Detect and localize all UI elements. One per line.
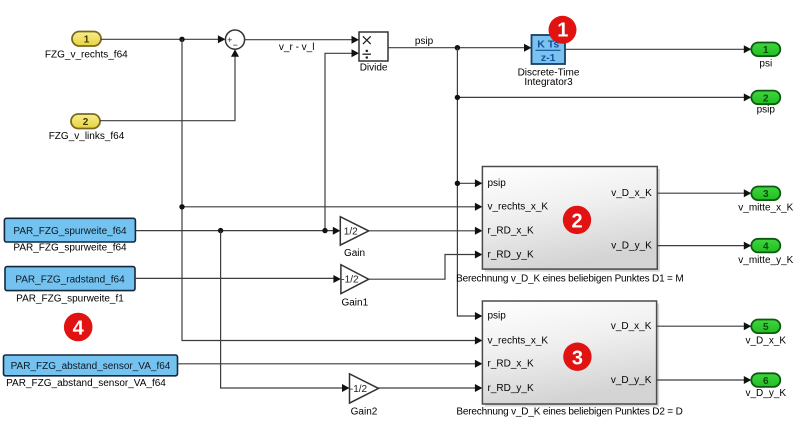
wire spurweite branch down to gain2: [221, 231, 350, 392]
svg-text:Gain: Gain: [344, 248, 365, 259]
svg-text:PAR_FZG_abstand_sensor_VA_f64: PAR_FZG_abstand_sensor_VA_f64: [11, 361, 171, 372]
wire inport2 to sum: [100, 49, 239, 120]
parameter block PAR_FZG_abstand_sensor_VA_f64: [4, 355, 178, 376]
svg-text:1: 1: [84, 35, 90, 46]
junction psip to subsystem1: [455, 181, 460, 186]
svg-text:3: 3: [572, 347, 583, 369]
junction divide output branch: [455, 45, 460, 50]
svg-text:4: 4: [763, 242, 769, 253]
svg-text:v_mitte_y_K: v_mitte_y_K: [738, 255, 793, 266]
wire subsystem1 v_D_y_K to outport4: [657, 242, 751, 250]
wire inport1 to sum: [101, 35, 225, 43]
outport 5: [751, 320, 780, 334]
subsystem 1 Berechnung D1 = M: [482, 167, 660, 272]
svg-text:v_rechts_x_K: v_rechts_x_K: [488, 335, 549, 346]
svg-text:psip: psip: [488, 311, 507, 322]
svg-text:Gain1: Gain1: [341, 297, 368, 308]
wire gain to subsystem1 r_RD_x_K: [369, 227, 483, 235]
svg-text:PAR_FZG_abstand_sensor_VA_f64: PAR_FZG_abstand_sensor_VA_f64: [6, 378, 166, 389]
wire spurweite branch up to divide divisor: [325, 49, 359, 230]
svg-text:1/2: 1/2: [344, 226, 358, 237]
wire radstand to gain1: [135, 275, 341, 283]
svg-text:v_mitte_x_K: v_mitte_x_K: [738, 202, 793, 213]
red marker 2: [563, 206, 591, 234]
svg-text:PAR_FZG_radstand_f64: PAR_FZG_radstand_f64: [15, 274, 125, 285]
svg-text:-1/2: -1/2: [341, 275, 359, 286]
wire v_rechts to subsystem1: [182, 203, 482, 211]
svg-text:3: 3: [763, 189, 769, 200]
gain block Gain: [340, 217, 368, 245]
svg-text:2: 2: [83, 117, 89, 128]
svg-text:v_D_y_K: v_D_y_K: [746, 388, 787, 399]
svg-text:psip: psip: [488, 178, 507, 189]
svg-text:v_D_x_K: v_D_x_K: [611, 321, 652, 332]
arrow v_rechts into subsystem2: [475, 337, 483, 345]
svg-text:-1/2: -1/2: [350, 384, 368, 395]
red marker 1: [549, 16, 577, 44]
inport 2 FZG_v_links_f64: [71, 114, 100, 129]
wire gain1 to subsystem1 r_RD_y_K: [369, 251, 483, 280]
wire subsystem2 v_D_y_K to outport6: [657, 376, 752, 384]
red marker 4: [64, 313, 93, 342]
wire sum to divide: [245, 36, 359, 44]
svg-text:K Ts: K Ts: [537, 38, 559, 50]
svg-text:r_RD_x_K: r_RD_x_K: [488, 226, 534, 237]
sum block: [225, 30, 244, 50]
wire gain2 to subsystem2 r_RD_y_K: [379, 384, 483, 392]
svg-text:v_r - v_l: v_r - v_l: [279, 42, 315, 53]
wire divide output to integrator: [388, 44, 532, 52]
outport 6: [751, 373, 780, 387]
svg-text:+: +: [227, 35, 232, 45]
svg-text:6: 6: [763, 376, 769, 387]
red marker 3: [563, 343, 591, 371]
svg-text:v_D_y_K: v_D_y_K: [611, 241, 652, 252]
outport 4: [751, 239, 780, 253]
svg-text:v_D_x_K: v_D_x_K: [611, 188, 652, 199]
gain block Gain2: [350, 374, 379, 403]
svg-text:Divide: Divide: [360, 63, 388, 74]
inport 1 FZG_v_rechts_f64: [72, 32, 101, 47]
svg-text:Berechnung v_D_K eines beliebi: Berechnung v_D_K eines beliebigen Punkte…: [456, 274, 683, 285]
svg-text:2: 2: [763, 93, 769, 104]
junction psip line: [455, 95, 460, 100]
svg-text:v_D_x_K: v_D_x_K: [746, 336, 787, 347]
outport 3: [751, 187, 780, 201]
svg-text:4: 4: [73, 318, 85, 340]
wire psip to outport2: [457, 93, 751, 101]
svg-text:Integrator3: Integrator3: [524, 77, 573, 88]
svg-text:−: −: [233, 40, 238, 50]
svg-text:FZG_v_rechts_f64: FZG_v_rechts_f64: [45, 50, 128, 61]
svg-text:v_D_y_K: v_D_y_K: [611, 375, 652, 386]
svg-text:psip: psip: [757, 105, 776, 116]
svg-text:Berechnung v_D_K eines beliebi: Berechnung v_D_K eines beliebigen Punkte…: [456, 407, 682, 418]
wire subsystem1 v_D_x_K to outport3: [657, 189, 751, 197]
junction v_rechts to subsystem1: [179, 204, 184, 209]
svg-text:PAR_FZG_spurweite_f64: PAR_FZG_spurweite_f64: [13, 242, 127, 253]
wire psip vertical distribution: [457, 48, 475, 316]
divide block Divide: [359, 32, 388, 61]
outport 2: [751, 91, 780, 105]
wire integrator to outport psi: [565, 45, 751, 53]
arrow psip into subsystem2: [475, 312, 483, 320]
svg-text:psi: psi: [759, 59, 772, 70]
outport 1: [751, 43, 780, 57]
integrator expression K Ts / z-1: [536, 38, 561, 63]
gain block Gain1: [341, 265, 369, 294]
svg-text:PAR_FZG_spurweite_f64: PAR_FZG_spurweite_f64: [13, 226, 127, 237]
parameter block PAR_FZG_radstand_f64: [5, 267, 135, 291]
svg-text:1: 1: [763, 45, 769, 56]
junction v_rechts branch: [179, 37, 184, 42]
wire abstand to subsystem2: [178, 360, 483, 368]
svg-text:v_rechts_x_K: v_rechts_x_K: [488, 202, 549, 213]
svg-text:5: 5: [763, 322, 769, 333]
wire spurweite to gain: [135, 227, 340, 235]
svg-text:r_RD_y_K: r_RD_y_K: [488, 249, 534, 260]
svg-text:PAR_FZG_spurweite_f1: PAR_FZG_spurweite_f1: [16, 293, 124, 304]
label Discrete-Time Integrator3: [518, 67, 580, 88]
svg-text:r_RD_y_K: r_RD_y_K: [488, 383, 534, 394]
svg-text:z-1: z-1: [541, 52, 556, 64]
svg-text:Gain2: Gain2: [351, 407, 378, 418]
svg-text:r_RD_x_K: r_RD_x_K: [488, 359, 534, 370]
svg-text:psip: psip: [415, 36, 434, 47]
discrete-time integrator block: [532, 35, 566, 64]
junction spurweite branch up: [322, 228, 327, 233]
wire psip to subsystem1: [457, 179, 482, 187]
wire subsystem2 v_D_x_K to outport5: [657, 322, 752, 330]
svg-text:FZG_v_links_f64: FZG_v_links_f64: [49, 131, 125, 142]
wire v_rechts vertical distribution: [182, 39, 476, 340]
junction spurweite branch down: [218, 228, 223, 233]
parameter block PAR_FZG_spurweite_f64: [4, 218, 135, 242]
svg-text:2: 2: [571, 211, 582, 233]
subsystem 2 Berechnung D2 = D: [482, 301, 659, 407]
